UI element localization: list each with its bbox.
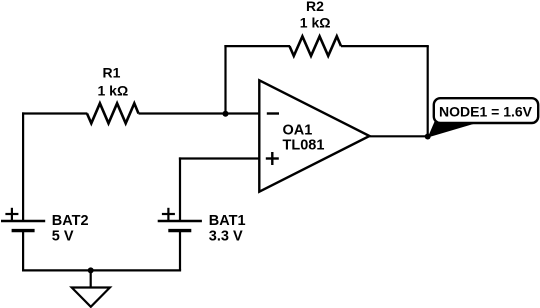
wire: BAT1 negative to bottom rail — [179, 231, 181, 271]
junction node NODE1 (output) — [425, 134, 431, 140]
svg-text:BAT2: BAT2 — [52, 213, 89, 229]
wire: BAT2 negative to bottom rail — [22, 231, 24, 272]
callout leader wedge — [428, 121, 475, 138]
wire: ground stub — [90, 270, 92, 288]
svg-text:BAT1: BAT1 — [209, 213, 246, 229]
battery BAT1 positive plate — [158, 220, 202, 222]
wire: left loop horizontal into R1 — [22, 112, 87, 114]
ground — [72, 288, 110, 307]
svg-text:1 kΩ: 1 kΩ — [300, 15, 331, 31]
plus sign BAT1 — [162, 208, 175, 220]
svg-text:TL081: TL081 — [283, 138, 325, 154]
wire: BAT1 positive up — [179, 157, 181, 221]
battery BAT1 negative plate — [168, 229, 191, 232]
svg-text:NODE1 = 1.6V: NODE1 = 1.6V — [439, 104, 533, 120]
svg-text:OA1: OA1 — [283, 122, 313, 138]
junction node ground rail — [88, 267, 94, 273]
svg-text:3.3 V: 3.3 V — [209, 229, 243, 245]
op-amp OA1 — [259, 80, 369, 191]
svg-text:R2: R2 — [306, 0, 324, 14]
wire: to non-inverting input — [179, 157, 259, 159]
wire: R1 to inverting input — [139, 112, 260, 114]
svg-text:5 V: 5 V — [52, 229, 74, 245]
op-amp inverting pin symbol (-) — [267, 112, 279, 114]
wire: top rail right segment from R2 to right corner — [341, 45, 429, 47]
wire: top rail left segment to R2 — [224, 45, 290, 47]
op-amp non-inverting pin symbol (+) — [266, 152, 279, 165]
battery BAT2 positive plate — [1, 220, 45, 222]
wire: bottom rail — [22, 269, 181, 271]
wire: feedback vertical from node A up to top rail — [224, 45, 226, 114]
resistor R1 — [87, 103, 139, 123]
callout box NODE1 — [434, 98, 538, 123]
svg-text:R1: R1 — [103, 65, 121, 81]
svg-text:1 kΩ: 1 kΩ — [98, 83, 129, 99]
wire: right vertical down to output node — [427, 46, 429, 136]
resistor R2 — [290, 36, 342, 56]
battery BAT2 negative plate — [12, 229, 35, 232]
wire: op-amp output — [370, 135, 429, 137]
wire: left vertical down to BAT2 — [22, 112, 24, 221]
junction node A (inverting input node) — [223, 111, 229, 117]
plus sign BAT2 — [5, 208, 18, 220]
